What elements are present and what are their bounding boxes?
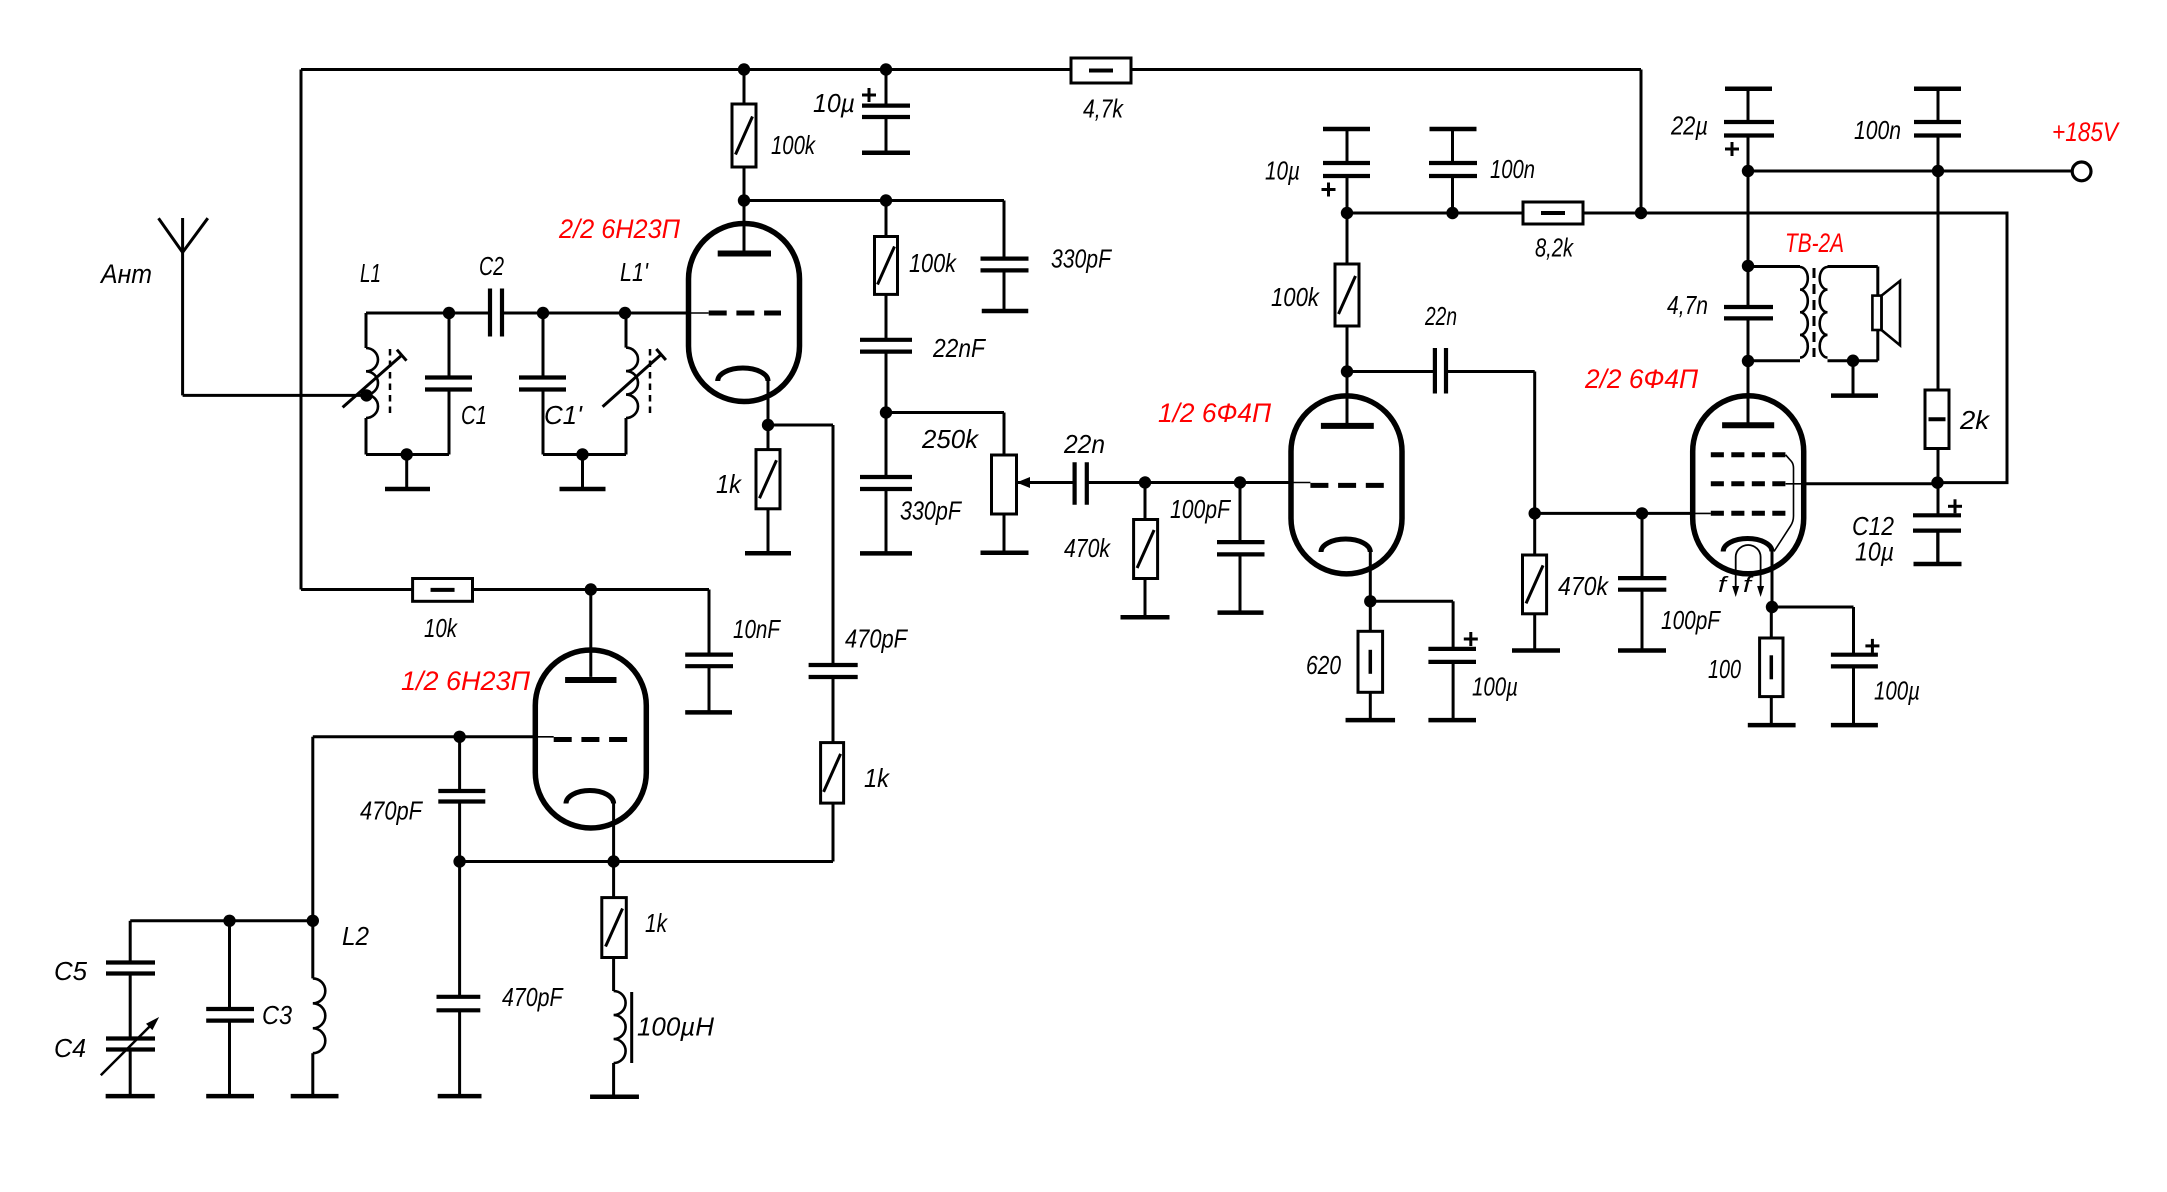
label 10u-3: [1855, 537, 1894, 567]
svg-text:100n: 100n: [1854, 115, 1901, 145]
label 10u-2: [1265, 156, 1300, 186]
svg-text:L1: L1: [360, 258, 381, 288]
svg-text:8,2k: 8,2k: [1535, 233, 1575, 263]
svg-text:10nF: 10nF: [733, 614, 782, 644]
label TV-2A: [1785, 228, 1844, 258]
wire screen grid V4 to node: [1804, 482, 1938, 485]
label L1': [620, 257, 649, 287]
svg-text:C4: C4: [54, 1033, 86, 1063]
capacitor 10u filter: [862, 106, 910, 117]
wire C 100n leads: [1451, 129, 1454, 213]
svg-text:4,7n: 4,7n: [1667, 290, 1708, 320]
label C1': [544, 400, 583, 430]
ground 100n-2 top: [1914, 86, 1961, 91]
resistor 10k: [413, 579, 473, 602]
svg-text:100pF: 100pF: [1170, 494, 1232, 524]
label L1: [360, 258, 381, 288]
capacitor 22u filter: [1724, 122, 1774, 136]
label 100: [1708, 654, 1741, 684]
transformer TV-2A primary: [1748, 267, 1808, 361]
wire C 4.7n bottom lead: [1747, 318, 1750, 361]
wire top B+ bus right segment: [1131, 68, 1641, 71]
wire cathode V2: [612, 804, 615, 862]
capacitor 470pF grid V2: [438, 737, 485, 862]
pin label f heater 2: [1743, 572, 1755, 597]
node cathode V1a junction: [762, 419, 774, 431]
potentiometer 250k volume: [992, 455, 1031, 553]
wire C1p bottom lead: [542, 390, 545, 455]
wire 1k feedback down to cathode bus: [614, 803, 833, 861]
resistor 8.2k decoupling: [1523, 202, 1583, 224]
ground 100u-2: [1831, 723, 1878, 728]
svg-text:22nF: 22nF: [932, 333, 987, 363]
capacitor C3: [206, 921, 254, 1096]
wire C1p top lead: [542, 313, 545, 378]
wire cathode V3 to 100u: [1370, 601, 1453, 649]
label 100uH: [637, 1012, 714, 1042]
svg-text:470pF: 470pF: [360, 796, 424, 826]
ground 100uH: [590, 1094, 639, 1099]
wire L1p tank top: [543, 312, 626, 315]
wire C1 bottom lead: [448, 390, 451, 455]
ground C4: [106, 1094, 155, 1099]
ground 22u top: [1725, 86, 1772, 91]
node junction top bus / R 100k: [738, 63, 750, 75]
wire cathode V4: [1771, 552, 1774, 608]
ground 470k grid V3: [1121, 615, 1170, 620]
ground 330pF-1: [982, 309, 1029, 314]
wire L1 tank left top: [365, 313, 368, 348]
node L1p ground junction: [576, 448, 588, 460]
ground 100pF grid V3: [1218, 610, 1264, 615]
svg-text:ТВ-2А: ТВ-2А: [1785, 228, 1844, 258]
wire AGC bus to 10k row: [301, 588, 413, 591]
label 22u: [1670, 111, 1708, 141]
node junction L1/C2: [443, 307, 455, 319]
label 22nF: [932, 333, 987, 363]
svg-text:2k: 2k: [1959, 405, 1991, 435]
polarity + of C12: [1948, 499, 1962, 513]
inductor L2: [313, 921, 326, 1096]
svg-text:22n: 22n: [1424, 301, 1457, 331]
tube V3 triode 1/2 6F4P: [1291, 396, 1402, 574]
svg-text:100µH: 100µH: [637, 1012, 714, 1042]
wire primary bottom to anode V4: [1747, 361, 1750, 425]
svg-text:1k: 1k: [716, 469, 743, 499]
wire C 10u top lead: [885, 70, 888, 106]
label 1/2 6N23P: [401, 666, 530, 696]
resistor 1k cathode V1a: [756, 425, 780, 553]
wire anode V3 into tube: [1346, 372, 1349, 426]
node cathode V4 junction: [1766, 601, 1778, 613]
ground L1 tank: [385, 487, 430, 492]
wire R 100k to anode bar V1a: [743, 167, 746, 254]
capacitor 22n coupling: [1075, 462, 1087, 504]
svg-text:10µ: 10µ: [813, 88, 855, 118]
svg-text:100: 100: [1708, 654, 1741, 684]
ground 100pF-2: [1618, 648, 1666, 653]
svg-text:470pF: 470pF: [845, 624, 909, 654]
svg-text:22µ: 22µ: [1670, 111, 1708, 141]
svg-text:100k: 100k: [1271, 282, 1321, 312]
wire C1 top lead: [448, 313, 451, 378]
resistor 100 cathode V4: [1760, 607, 1783, 725]
label C2: [479, 251, 504, 281]
label 250k: [921, 424, 980, 454]
wire top B+ bus left segment: [301, 68, 1071, 71]
capacitor 100pF grid V3: [1217, 483, 1265, 613]
node L1 tap junction: [360, 389, 372, 401]
node junction rail / R 100k-3 / C 10u-2: [1341, 207, 1353, 219]
label 470pF-2: [502, 982, 564, 1012]
label 22n: [1063, 429, 1105, 459]
ground L1p tank: [560, 487, 606, 492]
ground speaker return: [1831, 393, 1878, 398]
label 100pF-2: [1661, 605, 1722, 635]
svg-text:250k: 250k: [921, 424, 980, 454]
ground 100: [1748, 723, 1796, 728]
label 2/2 6N23P: [558, 214, 680, 244]
wire L1 tank ground stub: [405, 455, 408, 490]
polarity + of 100u-2: [1865, 639, 1879, 653]
capacitor 100n decoupling: [1429, 163, 1477, 176]
svg-text:1/2 6Ф4П: 1/2 6Ф4П: [1158, 398, 1271, 428]
wire secondary ground stub: [1852, 361, 1855, 396]
inductor L1' variable: [603, 348, 666, 418]
inductor 100uH choke: [614, 991, 632, 1097]
node anode V2 junction: [585, 583, 597, 595]
node junction L1p top: [619, 307, 631, 319]
capacitor C5: [106, 921, 155, 974]
node anode V1a junction: [738, 194, 750, 206]
wire C 4.7n top lead: [1747, 266, 1750, 307]
label 2k: [1959, 405, 1991, 435]
node junction 22nF / 330pF / pot: [880, 406, 892, 418]
label 10u: [813, 88, 855, 118]
svg-text:470pF: 470pF: [502, 982, 564, 1012]
label L2: [342, 921, 370, 951]
capacitor 22n-2 coupling: [1347, 348, 1535, 394]
label 1k V1a: [716, 469, 743, 499]
svg-text:+185V: +185V: [2052, 117, 2121, 147]
svg-text:100n: 100n: [1490, 154, 1535, 184]
node cathode V3 junction: [1364, 595, 1376, 607]
wire C 22u leads: [1747, 89, 1750, 171]
capacitor 4.7n tone: [1724, 307, 1773, 318]
capacitor 470pF-2 to ground: [437, 862, 481, 1097]
ground 470pF-2: [438, 1094, 482, 1099]
wire 470pF to 1k feedback: [832, 677, 835, 743]
label Ant: [99, 259, 152, 289]
wire L1p bottom lead: [625, 418, 628, 455]
inductor L1 variable: [343, 348, 407, 418]
node junction grid V2 / 470pF: [453, 731, 465, 743]
label 22n-2: [1424, 301, 1457, 331]
wire 10k to anode V2: [473, 588, 710, 591]
node junction 22u / +185 wire: [1742, 165, 1754, 177]
wire anode V1a row y=200: [744, 199, 886, 202]
wire cathode V3: [1369, 552, 1372, 601]
wire L1 tank left bottom: [365, 418, 368, 455]
wire 100n-2 node down to R 2k: [1937, 171, 1940, 390]
wire L1p tank bottom: [543, 453, 626, 456]
svg-text:C5: C5: [54, 956, 88, 986]
wire anode row to corner x=1004: [886, 201, 1004, 259]
svg-text:470k: 470k: [1558, 571, 1610, 601]
wire C 10u bottom lead: [885, 117, 888, 153]
svg-text:620: 620: [1306, 650, 1341, 680]
label 470pF grid V2: [360, 796, 424, 826]
svg-text:L1': L1': [620, 257, 649, 287]
label 470k: [1064, 533, 1112, 563]
label 100k V1a: [771, 130, 817, 160]
svg-text:2/2 6Н23П: 2/2 6Н23П: [558, 214, 680, 244]
wire left AGC bus vertical: [300, 70, 303, 590]
wire secondary to speaker: [1876, 267, 1879, 361]
wire feedback from cathode V1a: [768, 425, 833, 665]
node junction grid wire / 100pF: [1234, 476, 1246, 488]
node junction 470pF / cathode bus: [453, 855, 465, 867]
ground 100n top: [1430, 127, 1477, 132]
label +185V: [2052, 117, 2121, 147]
node junction anode V3 / 22n-2: [1341, 365, 1353, 377]
svg-text:100µ: 100µ: [1874, 676, 1920, 706]
wire grid V2 row: [460, 735, 554, 738]
pin label f heater 1: [1718, 572, 1730, 597]
ground L2: [291, 1094, 339, 1099]
ground 1k cathode V1a: [745, 551, 791, 556]
wire grid V1a: [625, 312, 709, 315]
capacitor 470pF feedback: [809, 665, 858, 677]
wire cathode V4 to 100u-2: [1772, 607, 1854, 655]
svg-text:100k: 100k: [909, 248, 958, 278]
svg-text:1/2 6Н23П: 1/2 6Н23П: [401, 666, 530, 696]
capacitor 330pF-2: [860, 413, 912, 554]
label C12: [1852, 511, 1894, 541]
svg-text:2/2 6Ф4П: 2/2 6Ф4П: [1584, 364, 1698, 394]
resistor 2k screen: [1925, 390, 1949, 449]
svg-text:L2: L2: [342, 921, 370, 951]
node junction L2 top: [307, 915, 319, 927]
wire antenna to L1 tap: [183, 394, 367, 397]
resistor 4.7k decoupling: [1071, 58, 1131, 83]
wire top bus corner down to +185 rail: [1640, 70, 1643, 214]
label 4.7k: [1083, 94, 1125, 124]
wire R 2k to screen node: [1937, 449, 1940, 483]
wire cathode bus: [460, 860, 614, 863]
wire detector node to pot: [886, 413, 1004, 456]
label 100k-3: [1271, 282, 1321, 312]
wire grid V2 to L2 tank: [313, 737, 460, 921]
polarity + of 100u: [1464, 632, 1478, 646]
resistor 100k anode V1a: [732, 104, 756, 167]
wire pot wiper to 22n: [1017, 481, 1075, 484]
label 100n: [1490, 154, 1535, 184]
capacitor 100u-2 cathode V4: [1831, 655, 1878, 725]
capacitor C1: [425, 378, 472, 390]
wire L1p top lead: [625, 313, 628, 348]
resistor 1k feedback: [821, 743, 844, 804]
ground 10nF: [685, 710, 732, 715]
label C3: [262, 1000, 292, 1030]
ground C3: [206, 1094, 254, 1099]
capacitor 330pF-1: [981, 259, 1029, 311]
svg-text:470k: 470k: [1064, 533, 1112, 563]
wire C2 left lead: [449, 312, 490, 315]
speaker BA1: [1872, 281, 1900, 345]
ground 10u-2 top: [1323, 127, 1370, 132]
wire antenna mast: [181, 218, 184, 395]
node junction grid V4 / 100pF-2: [1636, 507, 1648, 519]
wire L2 row: [130, 919, 313, 922]
label 470k-2: [1558, 571, 1610, 601]
wire L1 tank bottom side: [366, 453, 449, 456]
wire +185V output line: [1748, 170, 2072, 173]
label 10nF: [733, 614, 782, 644]
wire C2 right lead: [502, 312, 543, 315]
node junction transformer primary bottom: [1742, 355, 1754, 367]
wire 22n-2 down to grid V4: [1533, 372, 1536, 514]
node cathode V2 junction: [607, 855, 619, 867]
node junction grid V4 / 470k-2: [1529, 507, 1541, 519]
svg-text:100pF: 100pF: [1661, 605, 1722, 635]
svg-text:10µ: 10µ: [1855, 537, 1894, 567]
label 1/2 6F4P: [1158, 398, 1271, 428]
svg-text:4,7k: 4,7k: [1083, 94, 1125, 124]
label 1k-3: [864, 763, 891, 793]
node junction C3 top: [223, 915, 235, 927]
label 8.2k: [1535, 233, 1575, 263]
ground 10u: [862, 150, 910, 155]
svg-text:C2: C2: [479, 251, 504, 281]
label 100pF: [1170, 494, 1232, 524]
wire C 10u-2 leads: [1346, 129, 1349, 213]
capacitor C12 10u screen: [1913, 515, 1961, 564]
label 1k-2: [645, 908, 669, 938]
capacitor 10nF anode V2: [685, 590, 733, 713]
node junction anode row / R 100k-2: [880, 194, 892, 206]
label 100u: [1472, 672, 1518, 702]
transformer TV-2A secondary: [1820, 267, 1878, 361]
capacitor C1': [519, 378, 566, 390]
wire C12 bottom lead: [1937, 531, 1940, 564]
node junction transformer primary top: [1742, 260, 1754, 272]
wire C12 top lead: [1937, 483, 1940, 516]
svg-text:1k: 1k: [645, 908, 669, 938]
svg-text:Ант: Ант: [99, 259, 152, 289]
wire antenna left arm: [159, 218, 183, 252]
capacitor C2: [490, 289, 502, 337]
wire cathode V1a: [767, 381, 770, 425]
wire screen grid internal thin: [1786, 483, 1804, 485]
wire L1 tank top side: [366, 312, 449, 315]
capacitor 10u-2 decoupling: [1323, 163, 1370, 176]
node junction 4.7k feed / +185 rail: [1635, 207, 1647, 219]
svg-text:C1': C1': [544, 400, 583, 430]
svg-text:C3: C3: [262, 1000, 292, 1030]
resistor 470k grid V3: [1134, 483, 1158, 618]
polarity + of 22u: [1725, 142, 1739, 156]
node junction top bus / C 10u: [880, 63, 892, 75]
wire +185V rail: [1347, 213, 2007, 483]
node junction 100n-2 / +185 wire: [1932, 165, 1944, 177]
label 100n-2: [1854, 115, 1901, 145]
capacitor 100pF-2 grid V4: [1618, 513, 1666, 650]
polarity + of 10u: [862, 88, 876, 102]
label 10k: [424, 613, 459, 643]
label 330pF-1: [1051, 244, 1113, 274]
label 2/2 6F4P: [1584, 364, 1698, 394]
node secondary ground junction: [1847, 355, 1859, 367]
polarity + of 10u-2: [1322, 183, 1336, 197]
wire anode V1a to top bus: [743, 70, 746, 105]
tube V2 triode 1/2 6N23P: [535, 650, 646, 828]
svg-text:100k: 100k: [771, 130, 817, 160]
svg-text:C1: C1: [461, 400, 487, 430]
resistor 1k-2 cathode V2: [602, 862, 627, 992]
wire 22n to grid V3: [1087, 481, 1311, 484]
label C5: [54, 956, 88, 986]
node junction rail / C 100n: [1446, 207, 1458, 219]
capacitor 100u cathode V3: [1428, 649, 1476, 720]
wire 22u node down to transformer: [1747, 171, 1750, 266]
label 100u-2: [1874, 676, 1920, 706]
node junction grid wire / 470k: [1139, 476, 1151, 488]
svg-text:330pF: 330pF: [1051, 244, 1113, 274]
ground 100u: [1428, 718, 1476, 723]
label 620: [1306, 650, 1341, 680]
wire antenna right arm: [183, 218, 208, 252]
tube V4 pentode 2/2 6F4P: [1693, 396, 1804, 597]
ground 250k: [981, 550, 1029, 555]
wire grid V4 row: [1535, 512, 1711, 515]
node junction screen grid / 2k / C12: [1931, 476, 1943, 488]
capacitor C4 variable: [101, 974, 159, 1097]
tube V1 triode 2/2 6N23P: [689, 224, 800, 402]
svg-text:22n: 22n: [1063, 429, 1105, 459]
node junction C2/C1p: [537, 307, 549, 319]
svg-text:10µ: 10µ: [1265, 156, 1300, 186]
wire C 100n-2 leads: [1937, 89, 1940, 171]
resistor 620 cathode V3: [1358, 601, 1383, 720]
resistor 100k-3 anode V3: [1335, 213, 1359, 372]
label 330pF-2: [900, 496, 963, 526]
label 470pF-3: [845, 624, 909, 654]
svg-text:100µ: 100µ: [1472, 672, 1518, 702]
label C4: [54, 1033, 86, 1063]
node L1 tank ground junction: [401, 448, 413, 460]
wire anode V2 into tube: [589, 590, 592, 677]
transformer TV-2A core: [1813, 268, 1816, 357]
ground 620: [1346, 718, 1396, 723]
label C1: [461, 400, 487, 430]
ground 330pF-2: [860, 551, 912, 556]
terminal +185V: [2072, 162, 2091, 181]
svg-text:330pF: 330pF: [900, 496, 963, 526]
ground 470k-2: [1512, 648, 1560, 653]
label 100k-2: [909, 248, 958, 278]
capacitor 22nF: [860, 294, 912, 412]
label 4.7n: [1667, 290, 1708, 320]
resistor 100k-2 detector load: [875, 201, 898, 295]
resistor 470k-2 grid V4: [1523, 513, 1547, 650]
ground C12: [1914, 562, 1962, 567]
wire L1p ground stub: [581, 455, 584, 490]
svg-text:1k: 1k: [864, 763, 891, 793]
svg-text:10k: 10k: [424, 613, 459, 643]
capacitor 100n-2 filter: [1914, 122, 1961, 136]
